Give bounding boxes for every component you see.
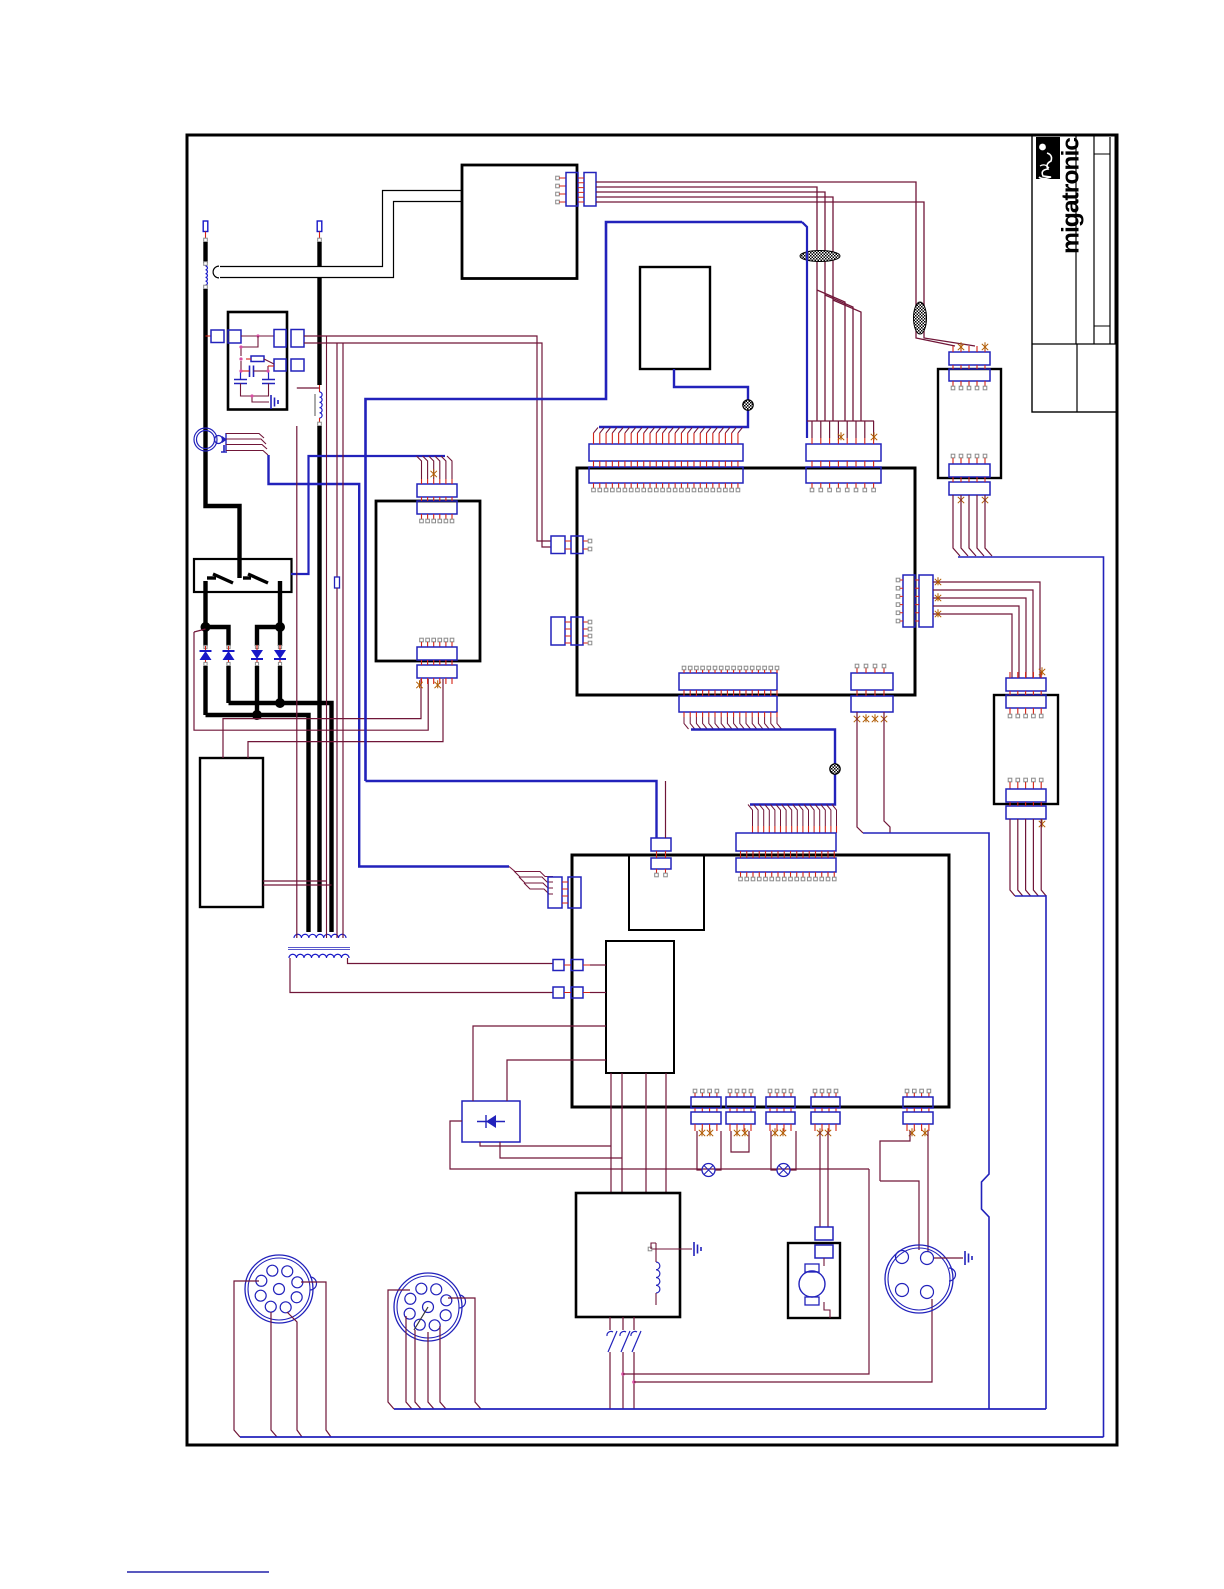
CN-I pin squares	[739, 877, 743, 881]
motor internal wire	[824, 1258, 830, 1318]
CN1 wire 1	[234, 1281, 259, 1437]
PCB3 bottom wires	[953, 495, 960, 556]
filter wire down	[240, 361, 242, 371]
mains cable to control box (outline)	[220, 196, 463, 272]
bundle stubs into PCB2	[753, 826, 837, 833]
CT secondary wire 2	[226, 439, 266, 444]
B3 top stubs	[422, 479, 453, 484]
PCB1 connector CN-B outer	[806, 444, 881, 461]
pin squares below diodes	[204, 662, 207, 665]
cable node	[743, 400, 753, 410]
mains wire L1 to switch	[206, 289, 240, 559]
PCB2 left connector CN-J outer	[548, 877, 562, 908]
CN-E X marks	[935, 577, 941, 585]
CN3 ground wire	[934, 1257, 963, 1259]
CN-I stubs	[741, 851, 835, 858]
B6 inductor	[656, 1262, 660, 1293]
PCB2 connector CN-I outer	[736, 833, 836, 851]
CN-K5 wire 1	[880, 1131, 910, 1181]
main PCB2 board	[572, 855, 949, 1107]
secondary tap left	[290, 958, 553, 993]
filter ground	[271, 395, 278, 409]
terminal pin square	[318, 238, 322, 242]
diode box wire down2	[500, 1142, 622, 1158]
filter output wire 1	[304, 336, 551, 541]
B4 connector stubs 2	[578, 178, 584, 202]
PCB3 connector top outer	[949, 352, 990, 365]
current transformer ring	[194, 428, 217, 451]
switch aux blue wire	[291, 456, 445, 574]
diode box wire up2	[507, 1060, 606, 1101]
B4 connector stubs	[559, 178, 566, 202]
wire y1374	[623, 1169, 869, 1374]
EMC filter box	[228, 312, 287, 410]
main PCB1 board	[577, 468, 915, 695]
fuse F1	[335, 577, 340, 588]
filter wire	[241, 335, 274, 337]
wire B4-2	[596, 187, 845, 421]
lamp H1	[702, 1164, 715, 1177]
U-link on CN-K2	[731, 1131, 749, 1152]
junction dot D	[252, 710, 262, 720]
PCB2 bottom connector CN-K5	[905, 1089, 909, 1093]
pin square	[318, 422, 322, 426]
transformer secondary winding	[289, 954, 349, 958]
PCB1 right connector CN-E inner	[903, 575, 915, 627]
T1 stubs	[564, 964, 590, 966]
CN-B pin squares	[810, 488, 814, 492]
stub below inductor L2	[319, 418, 321, 423]
B3 bottom stubs 2	[422, 660, 453, 665]
title block divider x=1076	[1075, 135, 1077, 344]
PCB3 top stubs	[953, 346, 985, 352]
switch wire in	[237, 559, 241, 578]
main blue cable B1	[366, 222, 803, 781]
PCB4 X mark bottom	[1039, 819, 1045, 827]
wire to ground	[252, 396, 269, 402]
filter terminal right upper	[274, 330, 286, 348]
CN-D stubs	[565, 622, 588, 643]
PCB1 left connector CN-D inner	[571, 617, 583, 645]
lamp H1 circuit	[697, 1131, 702, 1170]
B3 bottom pin squares	[420, 638, 424, 642]
CN2 wire 6	[448, 1298, 481, 1409]
CN2 wire 3	[415, 1330, 421, 1409]
wire to CN3	[880, 1181, 919, 1250]
switch output right	[278, 581, 282, 629]
PCB4 connector bottom inner	[1006, 789, 1046, 802]
CT fan wire 3	[519, 877, 553, 888]
filter output wire 2	[304, 343, 551, 547]
title block bottom cell divider	[1076, 344, 1078, 412]
cable bundle rises	[748, 805, 837, 827]
pin squares above diodes	[204, 645, 207, 648]
CN-K1 X marks	[699, 1128, 705, 1136]
PCB1 connector CN-F inner	[679, 673, 777, 690]
wire D1 down	[203, 666, 207, 715]
CN1 notch	[310, 1277, 317, 1290]
circular connector CN3	[885, 1245, 953, 1313]
long wire from filter to transformer	[326, 336, 328, 938]
T2 wire to IB2	[590, 992, 606, 994]
terminal pin square	[204, 238, 208, 242]
blue wire PCB3 to bottom	[958, 557, 1104, 1437]
PCB2 terminal T2 outer	[553, 987, 564, 998]
bus A to D2	[206, 627, 229, 646]
B3 top connector inner	[417, 501, 457, 514]
wire B to D4	[278, 627, 282, 646]
CN-A pin stubs bottom	[594, 483, 738, 488]
B6 inductor leads	[655, 1243, 657, 1305]
inductor box B6	[576, 1193, 680, 1317]
CN-G wire 2	[884, 712, 890, 833]
CN-A pin stubs top	[594, 433, 738, 444]
filter internal wire	[241, 336, 258, 356]
PCB3 connector top inner	[949, 369, 990, 381]
cap C2 top lead	[240, 371, 242, 380]
resistor leads	[246, 358, 251, 360]
wire board PCB4	[994, 695, 1058, 804]
PCB1 connector CN-A inner	[589, 467, 743, 483]
bus B to D3	[257, 627, 280, 646]
CN-D pin squares	[588, 620, 592, 624]
PCB4 bottom stubs2	[1010, 802, 1041, 806]
aux box feed wire 1	[194, 632, 428, 730]
PCB1 left connector CN-C outer	[551, 536, 565, 554]
filter terminal outside right lower	[291, 359, 304, 371]
Migatronic logo square	[1036, 137, 1060, 179]
PCB2 connector CN-H outer	[651, 838, 671, 851]
CN-K3 X marks	[772, 1128, 778, 1136]
CN1 wire 3	[287, 1312, 302, 1437]
PCB3 inner stubs	[953, 381, 985, 386]
B4 edge connector	[566, 173, 578, 207]
wire board PCB3	[938, 369, 1001, 478]
secondary tap right	[348, 958, 554, 964]
filter terminal (outside left)	[211, 330, 224, 343]
breaker Q3	[633, 1317, 635, 1330]
PCB3 connector bottom inner	[949, 464, 990, 477]
ferrite bead FB2	[914, 302, 927, 334]
PCB2 bottom connector CN-K4	[813, 1089, 817, 1093]
junction dots	[239, 345, 242, 348]
aux box top wire 2	[248, 679, 443, 758]
relay box B5	[640, 267, 710, 369]
PCB2 terminal T1 inner	[571, 960, 583, 971]
ferrite bead FB1	[800, 251, 840, 262]
CT fan wire 4	[524, 883, 553, 894]
junction	[256, 334, 259, 337]
circular connector CN1	[245, 1255, 313, 1323]
title block horizontal divider y=344	[1032, 343, 1117, 345]
PCB2 connector CN-H inner	[651, 858, 671, 869]
cap C3 top lead	[268, 371, 270, 380]
B1 diagonal corner	[802, 222, 807, 438]
blue wire PCB4 to bottom bus	[1015, 896, 1046, 1409]
inductor L1	[206, 266, 208, 285]
T1 wire to IB2	[590, 964, 606, 966]
mains cable to control box (core)	[219, 196, 463, 272]
PCB4 pin squares	[1008, 714, 1012, 718]
motor terminal 1	[815, 1227, 833, 1240]
IB2 wire 1	[610, 1073, 612, 1193]
CN2 wire 5	[440, 1326, 446, 1409]
CN2 wire 2	[406, 1316, 412, 1409]
breaker Q2	[622, 1317, 624, 1330]
PCB4 bottom pin squares	[1008, 778, 1012, 782]
CN-F stubs bottom	[684, 712, 777, 717]
PCB1 connector CN-G outer	[851, 696, 893, 712]
CN-F stubs top	[684, 670, 777, 673]
CN1 wire 2	[271, 1312, 277, 1437]
terminal stub	[205, 232, 207, 239]
PCB3 X marks top	[958, 342, 964, 350]
PCB4 inner stubs	[1010, 708, 1041, 714]
PCB2 inner box IB2	[606, 941, 674, 1073]
stub mains to filter	[206, 335, 212, 337]
blue bus 2	[240, 1436, 1104, 1438]
B5 blue wire to connector cable	[599, 369, 748, 427]
PCB4 X mark top	[1039, 667, 1045, 675]
DC bus lower	[206, 715, 309, 932]
capacitor C1 (series)	[250, 366, 254, 378]
PCB3 bottom stubs	[953, 458, 985, 464]
CN1 wire 4	[301, 1282, 331, 1437]
control box	[462, 165, 577, 279]
title block outline	[1032, 135, 1117, 412]
mains wire L2 upper	[317, 242, 321, 385]
PCB3 X marks bottom	[958, 495, 964, 503]
resistor R in filter	[251, 356, 264, 362]
filter terminal (inside left)	[228, 330, 241, 343]
mains terminal X2	[317, 221, 322, 232]
PCB1 connector CN-F outer	[679, 696, 777, 712]
PCB3 bottom pin squares	[951, 454, 955, 458]
CN-E pin squares	[896, 578, 900, 582]
B3 bottom connector outer	[417, 665, 457, 678]
title block divider x=1110	[1109, 137, 1111, 344]
PCB2 left connector CN-J inner	[568, 877, 581, 908]
CN-E stubs	[900, 580, 919, 621]
CT bracket	[225, 433, 227, 451]
pin square	[204, 262, 208, 266]
circular connector CN2	[394, 1273, 462, 1341]
inductor L2 core line	[314, 394, 316, 416]
junction dot C	[275, 698, 285, 708]
fuse wire down	[336, 588, 338, 938]
PCB1 connector CN-B inner	[806, 467, 881, 483]
CT secondary wire 1	[226, 434, 264, 439]
diode D3	[256, 645, 258, 650]
CN-F pin squares top	[682, 666, 686, 670]
diode box wire up	[473, 1026, 606, 1101]
inductor L2	[320, 392, 323, 418]
B3 fan X mark	[431, 469, 437, 477]
cable node 2	[830, 764, 840, 774]
PCB4 connector top inner	[1006, 695, 1046, 708]
B4 outer connector	[584, 173, 596, 207]
B3 top inner stubs	[422, 514, 453, 519]
CN-H feed maroon	[665, 781, 667, 838]
diode D1	[205, 646, 207, 651]
terminal stub	[319, 232, 321, 239]
CN-K2 X marks	[734, 1128, 740, 1136]
CN2 wire 1	[388, 1290, 410, 1409]
PCB4 bottom wires	[1010, 819, 1015, 896]
footer line	[127, 1571, 269, 1573]
CN-K5 wire 2	[927, 1131, 929, 1251]
B3 top pin squares	[420, 519, 424, 523]
CN2 key line	[414, 1307, 428, 1330]
wire L2-inductor-top to primary	[297, 387, 320, 389]
IB2 wire 3	[645, 1073, 647, 1193]
PCB2 connector CN-I inner	[736, 858, 836, 872]
title block divider x=1094	[1093, 135, 1095, 344]
wire B4-1b	[916, 302, 955, 346]
CN-G wire 1	[857, 712, 863, 833]
PCB3 pin squares	[951, 386, 955, 390]
junction dot A	[201, 622, 211, 632]
PCB4 top stubs	[1010, 672, 1041, 678]
aux box right wires	[263, 880, 327, 882]
B3 bottom stubs	[422, 642, 453, 647]
switch blade 1	[213, 574, 233, 583]
mains cable loop end	[213, 266, 219, 278]
B3 bottom X marks	[416, 680, 422, 688]
diode box wire down1	[480, 1142, 611, 1146]
wire D2 down	[226, 666, 230, 703]
IB2 wire 4	[665, 1073, 667, 1193]
filter terminal right lower	[274, 359, 286, 371]
mains wire L2 to transformer	[317, 426, 321, 932]
auxiliary box	[200, 758, 263, 907]
CT secondary wire 3	[226, 445, 267, 450]
PCB1 connector CN-G inner	[851, 673, 893, 690]
title block cell line y=326	[1094, 325, 1110, 327]
CN3 wire from pin	[926, 1298, 928, 1300]
DC bus upper	[229, 703, 332, 932]
diode box wire down3	[450, 1121, 869, 1169]
CN-A pin stubs mid	[594, 461, 738, 467]
PCB1 left connector CN-D outer	[551, 617, 565, 645]
wire A to D1	[203, 627, 207, 646]
driver box B3	[376, 501, 480, 661]
PCB2 bottom connector CN-K1	[693, 1089, 697, 1093]
IB2 wire 2	[621, 1073, 623, 1193]
drawing border frame	[187, 135, 1117, 1445]
filter bottom wire	[241, 384, 269, 397]
wire D3 down	[255, 666, 259, 715]
primary lead fuse wire	[336, 343, 338, 577]
CN-E to PCB4 wires	[933, 582, 1040, 678]
primary lead 3	[342, 343, 344, 938]
CN-B pin stubs top	[812, 438, 874, 444]
CN-H feed blue	[366, 781, 657, 838]
CN-G pin squares	[855, 664, 859, 668]
PCB4 connector bottom outer	[1006, 806, 1046, 819]
blue wire CN-G to right	[863, 833, 989, 1409]
fan motor wire 1	[819, 1131, 821, 1227]
CN-B X mark 1	[838, 432, 844, 440]
PCB3 connector bottom outer	[949, 482, 990, 495]
capacitor C3	[262, 380, 275, 384]
PCB1 left connector CN-C inner	[571, 536, 583, 554]
wire D4 down	[278, 666, 282, 703]
cable bundle drops	[684, 717, 782, 729]
CN2 notch	[459, 1295, 466, 1308]
lamp H2	[777, 1164, 790, 1177]
B6 ground wire	[651, 1248, 692, 1250]
CT secondary wire 4	[226, 451, 268, 456]
fan motor wire 2	[827, 1131, 829, 1227]
CT cable to PCB2 (blue)	[269, 455, 510, 867]
CN-J stubs	[562, 882, 568, 903]
main switch box	[194, 559, 292, 592]
CN-K5 X marks	[909, 1128, 915, 1136]
transformer core	[288, 948, 350, 950]
wire B4-4	[596, 197, 861, 421]
blue bus 1	[394, 1408, 1046, 1410]
svg-text:migatronic: migatronic	[1058, 137, 1085, 254]
PCB2 terminal T1 outer	[553, 960, 564, 971]
lamp H2 circuit	[771, 1131, 777, 1170]
PCB2 bottom connector CN-K2	[728, 1089, 732, 1093]
CN-A cable fan	[594, 428, 743, 434]
CN-H stubs	[657, 851, 666, 858]
T2 stubs	[564, 992, 590, 994]
B3 top fan wires	[417, 456, 453, 479]
CN-B pin stubs bottom	[812, 483, 874, 488]
diode D4	[279, 645, 281, 650]
CN-G X marks	[854, 714, 860, 722]
CN-B wires jog bus	[807, 420, 874, 422]
wire y1382	[634, 1299, 932, 1382]
CN-C pin squares	[588, 539, 592, 543]
CT secondary symbol	[215, 436, 223, 444]
CN2 wire 4	[428, 1332, 434, 1409]
fan motor M	[799, 1271, 825, 1297]
aux box top wire 1	[223, 679, 421, 758]
wire B4-3	[596, 192, 853, 421]
junction dot B	[275, 622, 285, 632]
CN-B wire verticals	[812, 421, 874, 438]
filter terminal outside right upper	[291, 330, 304, 348]
switch blade 2	[248, 574, 268, 583]
CN-K4 X marks	[817, 1128, 823, 1136]
mains terminal X1	[203, 221, 208, 232]
pin square	[204, 285, 208, 289]
CN-H pin squares	[655, 873, 659, 877]
breaker Q1	[609, 1317, 611, 1330]
PCB2 bottom connector CN-K3	[768, 1089, 772, 1093]
fan motor box	[788, 1243, 840, 1318]
CN-G stubs mid	[857, 690, 884, 696]
CN-A pin squares	[592, 488, 596, 492]
transformer primary winding	[294, 934, 346, 938]
diode symbol	[486, 1115, 496, 1128]
title block cell line y=154	[1094, 153, 1110, 155]
diode D2	[228, 646, 230, 651]
PCB1 right connector CN-E outer	[919, 575, 933, 627]
B6 internal wire	[651, 1243, 656, 1249]
B6 ground	[694, 1242, 701, 1256]
CN-B pin stubs mid	[812, 461, 874, 467]
PCB2 terminal T2 inner	[571, 987, 583, 998]
CN-C stubs	[565, 541, 588, 549]
CT cable fan wire 1	[509, 867, 553, 877]
title block divider x=1115	[1114, 135, 1116, 344]
switch output left	[203, 581, 207, 629]
